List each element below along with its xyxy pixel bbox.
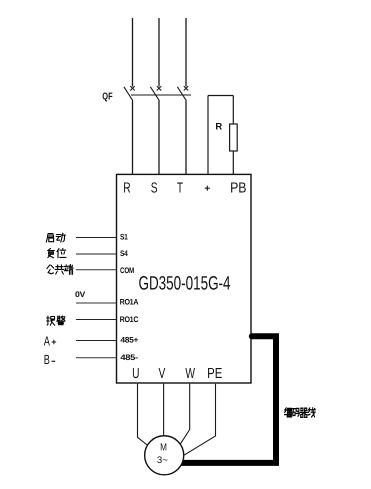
label baojing (alarm) char 1 [47,316,55,325]
label bianmaqixian (encoder cable) char 1 [284,408,291,417]
label bianmaqixian (encoder cable) char 4 [308,408,315,417]
wire phase L3 to terminal T [185,101,187,175]
label fuwei (reset) char 2 [57,248,66,257]
wire phase L1 input (upper) [132,18,134,87]
svg-text:U: U [132,366,139,382]
label baojing (alarm) char 2 [57,316,65,325]
wire phase L2 input (upper) [158,18,160,87]
svg-text:R: R [215,122,222,133]
svg-text:QF: QF [102,91,112,102]
label gonggongduan (common) char 1 [47,265,54,274]
svg-text:GD350-015G-4: GD350-015G-4 [139,274,231,295]
breaker QF pole 3 blade [177,87,186,101]
label bianmaqixian (encoder cable) char 3 [300,408,307,417]
wire stub RO1C [76,319,117,321]
wire stub S1 [76,237,117,239]
svg-text:RO1C: RO1C [120,315,139,324]
wire motor W phase [180,384,189,444]
svg-text:+: + [204,184,210,195]
wire PB riser upper [232,96,234,125]
breaker QF linkage bar [131,94,191,96]
label qidong (start) char 2 [56,233,65,242]
svg-text:R: R [123,181,130,197]
svg-text:T: T [177,181,183,197]
svg-text:485+: 485+ [120,336,138,345]
wire motor U phase [138,384,148,445]
wire stub RO1A [76,302,117,304]
wire phase L1 to terminal R [132,101,134,175]
wire stub S4 [76,253,117,255]
label qidong (start) char 1 [46,234,53,243]
svg-text:0V: 0V [75,290,86,299]
svg-text:PE: PE [207,366,222,382]
label gonggongduan (common) char 3 [64,265,73,275]
svg-text:A: A [44,333,50,348]
resistor R body [230,124,238,151]
wire stub 485+ [76,340,117,342]
svg-text:+: + [51,337,56,347]
wire braking loop top [208,95,233,97]
breaker QF pole 1 contact x [130,86,134,90]
motor M 3~ circle [145,436,184,475]
wire + terminal riser [207,96,209,175]
breaker QF pole 2 contact x [157,86,161,90]
inverter U1 box GD350-015G-4 [117,174,252,383]
encoder cable (thick) [182,336,276,463]
wire phase L2 to terminal S [158,101,160,175]
svg-text:S4: S4 [120,249,128,258]
wire PB riser lower [232,151,234,174]
svg-text:M: M [160,443,167,454]
wire stub COM [76,269,117,271]
breaker QF pole 2 blade [150,87,159,101]
wire motor V phase [163,384,165,437]
label fuwei (reset) char 1 [48,248,55,257]
label bianmaqixian (encoder cable) char 2 [292,408,299,416]
svg-text:3~: 3~ [157,455,168,466]
svg-text:S: S [151,181,158,197]
wire stub 485- [76,357,117,359]
wire motor PE [184,384,216,456]
svg-text:B: B [44,352,50,367]
svg-text:COM: COM [120,266,134,275]
svg-text:W: W [185,366,195,382]
label gonggongduan (common) char 2 [55,265,64,274]
svg-text:RO1A: RO1A [120,298,139,307]
svg-text:S1: S1 [120,233,128,242]
wire phase L3 input (upper) [185,18,187,87]
breaker QF pole 3 contact x [184,86,188,90]
svg-text:PB: PB [230,181,246,197]
svg-text:V: V [158,366,165,382]
breaker QF pole 1 blade [124,87,133,101]
svg-text:485-: 485- [120,353,138,362]
